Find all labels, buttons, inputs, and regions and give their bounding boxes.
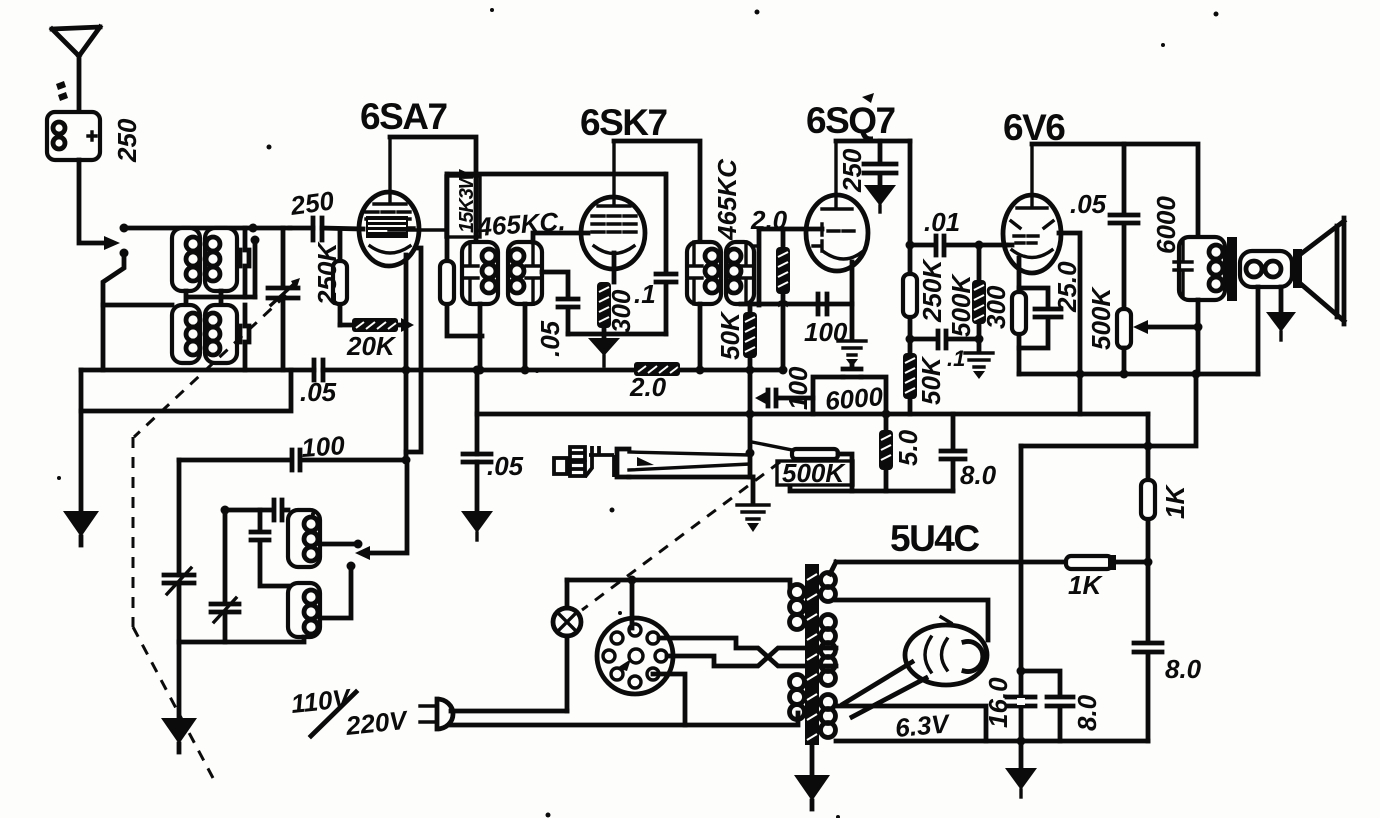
dashed gang line tuning — [134, 295, 286, 437]
wire 6V6 cathode — [1017, 258, 1022, 374]
ground phono — [751, 477, 756, 504]
svg-text:300: 300 — [606, 289, 636, 333]
wire mains bottom — [450, 713, 798, 725]
capacitor .05 (bus1) — [314, 360, 323, 380]
wire antenna lead down — [79, 160, 108, 243]
tube 6SQ7 envelope — [806, 195, 868, 271]
tube 6V6 cathode — [1012, 250, 1052, 258]
wire socket filament B — [667, 648, 836, 666]
potentiometer 500K volume — [752, 442, 802, 452]
tube 6SA7 envelope — [359, 192, 419, 266]
wire bus2 corner to 1K — [1146, 414, 1151, 562]
wire HV top to 1K line — [830, 562, 836, 574]
svg-text:250K: 250K — [312, 241, 342, 306]
bus1 left segment — [81, 368, 314, 373]
tube 6SA7 signal grid box — [366, 216, 408, 238]
svg-text:250: 250 — [288, 185, 337, 221]
wire osc tank left — [177, 460, 182, 642]
wire L2 tap — [320, 542, 358, 547]
tube 6SK7 plate — [598, 141, 630, 206]
resistor 5.0 — [884, 414, 889, 491]
svg-text:25.0: 25.0 — [1052, 261, 1082, 313]
wire T2 primary feed — [103, 303, 172, 308]
wire osc top with padder — [225, 500, 288, 520]
wire 6.3V box — [836, 706, 986, 741]
wire 6SK7 cathode — [612, 253, 617, 282]
resistor 1K vertical — [1141, 480, 1155, 519]
wire socket to mains — [653, 674, 685, 725]
tube 6V6 plate — [1017, 144, 1047, 208]
trimmer capacitor T2 — [240, 305, 249, 370]
ground 6SQ7 cathode — [850, 304, 855, 340]
socket key — [629, 649, 643, 663]
wire 6V6 grid — [1006, 243, 1012, 248]
svg-text:6000: 6000 — [824, 381, 885, 416]
svg-text:6SK7: 6SK7 — [580, 102, 667, 143]
wire screen line y174 — [447, 172, 664, 177]
wire T3 secondary bottom to bus1 — [523, 304, 528, 370]
resistor 250K — [903, 274, 917, 317]
wire transformer bottom — [1196, 300, 1201, 374]
wire phono to bus2 — [748, 414, 753, 477]
svg-text:20K: 20K — [346, 331, 397, 361]
capacitor 8.0 second filter — [1021, 671, 1073, 741]
ground 500K — [965, 353, 993, 367]
wire cathode box bottom — [568, 332, 666, 337]
wire diode line to cathode — [741, 262, 852, 304]
ink specks — [267, 145, 272, 150]
node switch contact A — [120, 224, 129, 233]
ground .05 — [461, 511, 493, 533]
wire socket filament A — [659, 638, 836, 666]
IF transformer T4 secondary — [726, 242, 754, 304]
tube 5U4C plate — [964, 642, 983, 672]
label box 500K — [777, 461, 853, 485]
resistor 500K grid — [977, 245, 982, 352]
svg-text:8.0: 8.0 — [960, 460, 997, 490]
phono jack — [617, 449, 629, 477]
tube 6V6 envelope — [1003, 195, 1061, 273]
wire 6SQ7 plate top — [836, 139, 910, 144]
wire 6SK7 plate top — [614, 141, 700, 242]
label 唱片 phono — [554, 446, 614, 477]
resistor 500K feedback — [1117, 309, 1131, 348]
svg-text:.05: .05 — [487, 451, 524, 481]
ground filter — [1005, 768, 1037, 790]
svg-text:.01: .01 — [924, 207, 960, 237]
transformer T2 primary coil — [172, 305, 200, 363]
output transformer primary — [1179, 237, 1225, 300]
power transformer core — [805, 564, 819, 745]
antenna coil L1 — [47, 112, 100, 160]
oscillator coil L3 — [288, 583, 320, 637]
wire pot bottom line — [790, 486, 953, 491]
wire mains top — [451, 709, 567, 714]
wire feedback arrow — [1146, 325, 1198, 330]
wire osc bottom — [179, 637, 304, 642]
capacitor .05 grid bypass — [542, 272, 578, 334]
tube 5U4C filament — [925, 637, 947, 672]
tube 6SK7 envelope — [581, 197, 645, 269]
wire primary top — [567, 580, 790, 587]
svg-text:500K: 500K — [1086, 286, 1116, 350]
resistor 300 cathode — [597, 282, 611, 328]
arrowhead antenna feed — [104, 236, 120, 250]
capacitor 8.0 output filter — [1134, 562, 1162, 741]
svg-text:1K: 1K — [1068, 570, 1103, 600]
tube 6SA7 plate — [374, 137, 406, 204]
IF transformer T3 secondary — [508, 242, 542, 304]
output transformer secondary — [1240, 251, 1292, 287]
transformer T1 secondary coil — [205, 228, 237, 291]
svg-text:465KC.: 465KC. — [475, 206, 566, 242]
capacitor 100 cathode — [818, 294, 827, 314]
node osc top — [221, 506, 230, 515]
resistor 300 (6V6 cathode) — [1012, 292, 1026, 334]
tube 5U4C envelope — [905, 625, 987, 685]
svg-text:15K3W: 15K3W — [456, 168, 478, 233]
IF transformer T3 primary — [462, 242, 498, 304]
IF transformer T4 primary — [687, 242, 721, 304]
lamp pilot — [565, 580, 570, 711]
variable capacitor C-tune RF — [268, 228, 298, 370]
capacitor .05 feedback — [1110, 144, 1138, 309]
node top wire right — [249, 224, 258, 233]
svg-text:6SA7: 6SA7 — [360, 96, 447, 137]
tube socket octal — [597, 618, 673, 694]
wire 6V6 screen — [1059, 233, 1080, 414]
svg-text:1K: 1K — [1160, 484, 1190, 519]
svg-text:500K: 500K — [946, 273, 976, 337]
wire T4 primary bottom to bus1 — [698, 304, 703, 370]
ground 6SK7 cathode — [588, 338, 620, 356]
capacitor 250 plate bypass — [864, 141, 896, 185]
tiny label near antenna coil — [56, 81, 68, 101]
svg-text:.05: .05 — [1070, 189, 1107, 219]
ground column left — [79, 370, 84, 511]
wire osc grid drop — [368, 460, 407, 553]
svg-text:5U4C: 5U4C — [890, 518, 979, 559]
wire 6V6 plate top — [1032, 144, 1198, 237]
ground osc — [177, 642, 182, 718]
wire B+ riser — [1021, 374, 1196, 446]
wire bottom return — [836, 739, 1148, 744]
wire filter node down — [1019, 446, 1024, 768]
resistor diode load — [781, 229, 786, 370]
secondary HV winding — [821, 573, 836, 588]
wire L3 tap — [320, 568, 351, 618]
filament winding 6.3V — [821, 695, 836, 710]
wire 6SQ7 grid line — [759, 227, 822, 232]
svg-text:50K: 50K — [715, 310, 745, 360]
capacitor .01 coupling — [910, 236, 1006, 255]
wire 6SA7 plate to screen line — [390, 137, 476, 242]
wire to socket — [630, 580, 635, 628]
resistor 250K — [338, 229, 343, 325]
speaker — [1293, 249, 1302, 288]
svg-text:5.0: 5.0 — [893, 429, 923, 466]
wire bus1 to bus2 tie — [748, 370, 753, 414]
tube 6SQ7 cathode — [824, 252, 862, 259]
svg-text:100: 100 — [783, 366, 813, 410]
primary winding top — [790, 585, 805, 600]
wire grid line — [290, 228, 363, 229]
node switch contact B — [120, 249, 129, 258]
svg-text:300: 300 — [981, 285, 1011, 329]
svg-text:500K: 500K — [782, 458, 846, 488]
wire coupling jumble between transformers — [186, 291, 255, 305]
capacitor .1 divider — [910, 331, 979, 348]
wire 6SK7 grid — [533, 233, 588, 242]
label 15K3W — [446, 176, 480, 237]
tube 6SA7 cathode — [370, 246, 410, 253]
svg-text:50K: 50K — [916, 355, 946, 405]
output transformer core — [1227, 237, 1237, 301]
capacitor osc series — [251, 510, 288, 586]
tube 6SK7 cathode — [594, 246, 634, 254]
svg-text:6.3V: 6.3V — [894, 708, 953, 743]
wire phono bottom — [629, 475, 753, 480]
tube 6SQ7 grid and diodes — [813, 224, 854, 251]
capacitor .05 to ground — [463, 454, 491, 462]
bus2 — [475, 370, 480, 511]
resistor 15K3W — [447, 174, 482, 336]
capacitor 8.0 (audio) — [941, 414, 965, 491]
tube 6V6 grids/beam — [1011, 221, 1053, 243]
variable capacitor C-tune osc — [164, 575, 194, 583]
capacitor 25.0 bypass — [1019, 288, 1061, 348]
svg-text:.1: .1 — [947, 346, 965, 371]
wire T3 primary bottom to bus1 — [478, 304, 483, 370]
resistor 20K — [340, 323, 403, 328]
wire secondary to speaker — [1256, 287, 1261, 374]
wire top band wire — [124, 226, 290, 231]
resistor 2.0 (bus1) — [634, 362, 680, 376]
ground speaker — [1279, 287, 1284, 312]
wire switch stub to ground column — [103, 253, 124, 370]
wire switch stub 2 — [253, 240, 258, 297]
wire filament diagonals — [843, 662, 926, 717]
svg-text:250K: 250K — [917, 258, 947, 323]
capacitor 100 AVC with arrow — [762, 390, 813, 406]
primary winding bottom — [790, 675, 805, 690]
svg-text:250: 250 — [837, 148, 867, 193]
svg-text:8.0: 8.0 — [1072, 694, 1102, 731]
svg-text:.05: .05 — [300, 377, 337, 407]
ground return line — [81, 370, 291, 411]
svg-text:465KC: 465KC — [712, 158, 742, 241]
trimmer osc — [211, 510, 239, 642]
capacitor 250 grid — [313, 218, 322, 240]
resistor 50K (IF sec) — [748, 304, 753, 370]
svg-text:250: 250 — [112, 118, 142, 163]
wire osc line with capacitor 100 — [179, 450, 407, 470]
ground plate bypass — [864, 185, 896, 206]
svg-text:8.0: 8.0 — [1165, 654, 1202, 684]
antenna — [52, 27, 100, 112]
wire 1K line — [836, 560, 1148, 565]
transformer T2 secondary coil — [205, 305, 237, 363]
svg-text:.05: .05 — [535, 320, 565, 357]
plug — [420, 706, 437, 722]
wire B line right — [908, 141, 913, 414]
trimmer capacitor T1 — [240, 228, 249, 297]
wire cathode/speaker return line — [1019, 372, 1258, 377]
resistor 1K horizontal — [1066, 556, 1112, 569]
dashed line pot to lamp switch — [582, 462, 780, 610]
ground transformer — [810, 745, 815, 775]
capacitor 6000 box — [813, 377, 886, 414]
tube 6SQ7 plate — [822, 141, 852, 209]
svg-text:2.0: 2.0 — [629, 372, 667, 402]
wire 6SA7 cathode/grid leads down — [404, 255, 409, 460]
transformer T1 primary coil — [172, 228, 200, 291]
tube 6SK7 grids — [592, 216, 636, 232]
capacitor .1 screen bypass — [656, 174, 676, 334]
svg-text:6000: 6000 — [1151, 196, 1181, 254]
ground symbol left — [63, 511, 99, 537]
oscillator coil L2 — [288, 510, 320, 567]
wire HV to 5U4C plate — [836, 600, 988, 640]
svg-text:.1: .1 — [634, 279, 656, 309]
resistor 50K lower — [903, 353, 917, 399]
tube 6SA7 grids — [366, 212, 414, 228]
svg-text:6SQ7: 6SQ7 — [806, 100, 895, 141]
capacitor 16.0 — [1007, 697, 1035, 706]
